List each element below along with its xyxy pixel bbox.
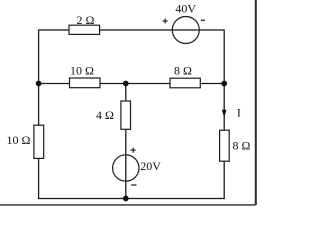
wire: outer loop (top, right, bottom, left): [39, 30, 225, 199]
wire: middle vertical branch: [125, 84, 127, 199]
plus sign of 20V: [131, 148, 136, 153]
node: junction dot bottom: [123, 196, 129, 202]
svg-text:10 Ω: 10 Ω: [7, 133, 31, 147]
svg-text:2 Ω: 2 Ω: [77, 13, 95, 27]
node: junction dot right-middle: [221, 81, 227, 87]
node: junction dot left-middle: [36, 81, 42, 87]
plus sign of 40V: [163, 19, 168, 24]
current arrow I: [222, 110, 227, 118]
resistor R=4Ω (vertical middle): [121, 101, 131, 129]
svg-text:40V: 40V: [175, 2, 196, 16]
node: junction dot center-middle: [123, 81, 129, 87]
wire: middle horizontal: [39, 83, 225, 85]
svg-text:I: I: [237, 106, 241, 120]
svg-text:8 Ω: 8 Ω: [174, 64, 192, 78]
frame border bottom: [0, 204, 256, 206]
voltage source 40V: [172, 17, 199, 44]
svg-text:20V: 20V: [140, 159, 161, 173]
svg-text:4 Ω: 4 Ω: [96, 108, 114, 122]
resistor R=10Ω (middle row): [70, 78, 101, 88]
svg-text:10 Ω: 10 Ω: [70, 64, 94, 78]
resistor R=10Ω (left vertical): [34, 125, 44, 158]
resistor R=2Ω (top): [69, 25, 100, 34]
resistor R=8Ω (middle row): [170, 78, 200, 88]
voltage source 20V: [113, 155, 139, 181]
minus sign of 20V: [131, 184, 136, 186]
resistor R=8Ω (right vertical): [220, 130, 230, 161]
svg-text:8 Ω: 8 Ω: [232, 139, 250, 153]
frame border right: [255, 0, 257, 205]
minus sign of 40V: [201, 19, 205, 21]
